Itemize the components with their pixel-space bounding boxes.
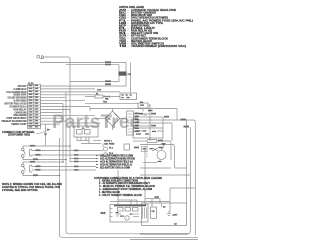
- svg-text:3 - MAIN AC POWER T.B. TERMIN: 3 - MAIN AC POWER T.B. TERMINAL BLOCK: [99, 185, 155, 188]
- svg-text:HOURMETER A/C TYPE: HOURMETER A/C TYPE: [131, 22, 164, 25]
- connector J1/P1 terminal block: [28, 85, 41, 129]
- svg-text:AC2-ALTERNATOR FIELD (+): AC2-ALTERNATOR FIELD (+): [100, 161, 133, 164]
- battery charge rectifier SCR box: [110, 205, 148, 223]
- svg-text:5 - NEUTRAL BLOCK: 5 - NEUTRAL BLOCK: [99, 191, 120, 194]
- wires: connector J1/P1 rows to right: [41, 88, 96, 90]
- wires: fuse F1 / HM / TB1 rows: [85, 96, 95, 98]
- wires: switch S1 pole runs: [23, 145, 70, 147]
- svg-text:PREHEAT SOLENOID SW: PREHEAT SOLENOID SW: [2, 120, 28, 123]
- svg-text:RUN RELAY: RUN RELAY: [14, 108, 27, 111]
- svg-text:NOTE 3: NOTE 3: [104, 140, 113, 142]
- svg-text:BATT CHG RECT: BATT CHG RECT: [131, 35, 146, 38]
- svg-text:2 - ALTERNATE CIRCUIT BREAKER: 2 - ALTERNATE CIRCUIT BREAKERS ONLY: [99, 182, 150, 185]
- svg-text:DA: DA: [140, 101, 144, 104]
- wires: panel light PL sub-panel drops: [70, 122, 100, 124]
- connection arrows to customer list: [96, 155, 99, 169]
- note: connect for optional, with pointer arrow and node arrow: [2, 131, 36, 137]
- battery charger BC block with voltmeter VM: [124, 128, 166, 160]
- svg-text:TRANSFORMER (240/415/240 VAC): TRANSFORMER (240/415/240 VAC): [131, 45, 186, 48]
- svg-text:NEUTRAL BLOCK: NEUTRAL BLOCK: [131, 40, 152, 43]
- watermark: PartsTree TM: [52, 112, 147, 133]
- svg-text:FAULT BREAKER (CUSTOMER): FAULT BREAKER (CUSTOMER): [131, 17, 168, 20]
- svg-text:CB1 FEED: CB1 FEED: [104, 143, 115, 145]
- svg-text:LIGHTING IS TYPICAL FOR SINGLE: LIGHTING IS TYPICAL FOR SINGLE PHASE. FO…: [2, 186, 60, 189]
- wires: stubs to connection arrows: [70, 158, 96, 160]
- svg-text:COOLANT TEMP SENDER: COOLANT TEMP SENDER: [8, 97, 27, 100]
- wire: PM return runs y81.5/y86: [70, 76, 119, 82]
- svg-text:MAIN CIRCUIT BKR: MAIN CIRCUIT BKR: [131, 14, 152, 17]
- svg-text:MONITOR PANEL: MONITOR PANEL: [131, 24, 151, 27]
- svg-text:OIL PRESS SENDER: OIL PRESS SENDER: [14, 101, 27, 103]
- customer connection legend text block: [94, 177, 162, 197]
- wires: battery charger BC / voltmeter VM block: [133, 130, 163, 132]
- wire: hourmeter HM to bus, y57 corner x70: [44, 57, 71, 113]
- panel light PL sub-panel: [74, 126, 98, 137]
- wire pair 27A/24A to panel meter PM: [40, 63, 126, 72]
- panel lamps PL1/PL2: [104, 147, 108, 157]
- svg-text:CB1-CUSTOMER FEED CONN: CB1-CUSTOMER FEED CONN: [100, 155, 133, 157]
- wires: drops into SCR and battery boxes: [102, 144, 104, 148]
- wires: bridge rectifier DA connections: [95, 118, 105, 120]
- wire number labels 27A/24A/25A/26A: [105, 61, 111, 85]
- note labels above lamps: [104, 140, 115, 145]
- note 1 text block: [2, 183, 62, 192]
- svg-text:TM: TM: [119, 46, 126, 48]
- svg-text:CB: CB: [152, 211, 156, 213]
- svg-text:3 PHASE, SEE ENG OPTION.: 3 PHASE, SEE ENG OPTION.: [2, 189, 38, 192]
- wire buses x59.5/x63/x66/x70 with bottom corners: [60, 138, 199, 237]
- connector J1/P1 pin numbers: [29, 85, 39, 128]
- svg-text:PANEL A/C POWER FUSE (15A A/C: PANEL A/C POWER FUSE (15A A/C PNL): [131, 19, 193, 22]
- terminal strip TB1: [127, 111, 134, 135]
- svg-text:BATTERY CHARGER: BATTERY CHARGER: [131, 12, 156, 15]
- bridge rectifier DA diamond: [105, 111, 120, 126]
- svg-text:PM: PM: [128, 74, 131, 76]
- svg-text:AUTOMATIC VOLTAGE REGULATOR: AUTOMATIC VOLTAGE REGULATOR: [131, 9, 176, 12]
- legend abbreviation rows: [119, 9, 193, 48]
- customer connection point list: [100, 155, 135, 169]
- svg-text:SCR: SCR: [101, 213, 106, 215]
- wires: terminal strip TB1 to right verticals x150/x163/x186.5/x195.3: [134, 113, 151, 115]
- svg-text:1 - ENGINE AUXILIARY CONNECTI: 1 - ENGINE AUXILIARY CONNECTIONS: [99, 179, 138, 182]
- svg-text:FUEL SOLENOID VALVE: FUEL SOLENOID VALVE: [7, 91, 27, 94]
- svg-text:4 - EMERGENCY STOP TERMINAL A: 4 - EMERGENCY STOP TERMINAL ALARM: [99, 188, 152, 191]
- wire: vertical x130.5: [130, 63, 132, 94]
- svg-text:CONTROL PANEL LEGEND: CONTROL PANEL LEGEND: [119, 6, 144, 9]
- svg-text:AVR: AVR: [119, 9, 126, 12]
- svg-text:CONNECT FOR OPTIONAL: CONNECT FOR OPTIONAL: [2, 131, 36, 134]
- svg-text:ALARM RELAY: ALARM RELAY: [14, 88, 27, 91]
- svg-text:CHARGE IND: CHARGE IND: [15, 111, 27, 114]
- svg-text:6 - UTILITY CONNECT TERMINAL: 6 - UTILITY CONNECT TERMINAL BLOCK: [99, 194, 142, 197]
- hourmeter HM symbol: [37, 56, 44, 59]
- circuit breaker switch S1 (group 1): [22, 146, 32, 160]
- svg-text:BC1-BATTERY CHG (+) CONN: BC1-BATTERY CHG (+) CONN: [100, 167, 130, 170]
- svg-text:REMOTE START: REMOTE START: [12, 123, 27, 126]
- svg-text:+BAT: +BAT: [172, 214, 178, 217]
- svg-text:ALTERNATOR FIELD (+): ALTERNATOR FIELD (+): [10, 105, 27, 108]
- wires: switch S2 runs: [23, 161, 63, 163]
- wire number labels 4A/4B/2A right side: [134, 113, 189, 149]
- fuse F1, light box PL, diode assembly DA: [95, 93, 148, 108]
- svg-text:AC1-ALTERNATOR MAIN STATOR: AC1-ALTERNATOR MAIN STATOR: [100, 157, 135, 160]
- battery box with breaker CB and +BAT terminal: [142, 203, 187, 226]
- main wires: [23, 57, 198, 237]
- svg-text:PANEL LIGHT: PANEL LIGHT: [131, 27, 156, 30]
- circuit breaker switch S2 (group 2): [22, 162, 32, 176]
- svg-text:RUN RELAY (S): RUN RELAY (S): [131, 30, 152, 33]
- connector J1/P1 signal name labels: [2, 85, 28, 126]
- svg-text:(CUSTOMER USE): (CUSTOMER USE): [8, 135, 30, 137]
- wire number labels on switch runs: [30, 145, 79, 176]
- svg-text:START SWITCH INPUT: START SWITCH INPUT: [7, 117, 27, 120]
- panel meter PM: [119, 72, 127, 76]
- svg-text:BATTERY POS (+) FEED: BATTERY POS (+) FEED: [5, 102, 27, 105]
- svg-text:NOTE 1: WIRING SHOWN FOR CB1,: NOTE 1: WIRING SHOWN FOR CB1, HM, DA AND: [2, 183, 62, 186]
- wires: switch S1 to lamps PL1/PL2: [32, 150, 104, 152]
- svg-text:HM: HM: [105, 98, 109, 100]
- svg-text:AVR OUT: AVR OUT: [18, 85, 27, 88]
- svg-text:J1 P1: J1 P1: [28, 83, 34, 85]
- svg-text:PANEL GROUND: PANEL GROUND: [14, 114, 27, 117]
- svg-text:AC3-ALTERNATOR FIELD (-): AC3-ALTERNATOR FIELD (-): [100, 164, 132, 167]
- svg-text:ENGINE START: ENGINE START: [14, 94, 27, 97]
- junction dots on buses: [59, 120, 71, 176]
- bottom wire runs to battery: [130, 238, 198, 240]
